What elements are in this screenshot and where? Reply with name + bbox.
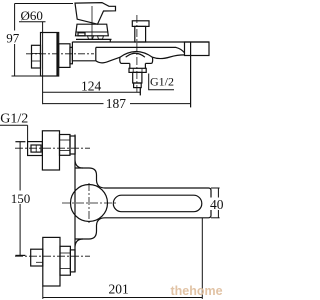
outlet nipple end cap [134,83,142,88]
svg-text:G1/2: G1/2 [150,75,174,89]
hub centerline vertical [88,183,90,223]
escutcheon bottom conn [43,237,60,286]
label G1/2 top leader [149,74,174,90]
wire 97 top extension line [15,3,73,5]
spout pipe top [72,41,209,43]
wire phi60 leader / dim extension vertical [42,22,44,104]
wire 201 right extension [201,218,203,299]
centerline outlet axis [136,15,138,92]
bonnet mid line [75,31,108,33]
connector nut A [59,44,70,68]
boss neck left [129,63,131,68]
svg-text:Ø60: Ø60 [21,8,43,23]
centerline top connection [15,147,90,149]
hub centerline horizontal [62,202,118,204]
pipe stub top conn [28,142,43,156]
escutcheon top conn [42,131,59,170]
bonnet base line [76,38,112,40]
bonnet trapezoid [76,24,109,36]
svg-text:187: 187 [106,96,127,111]
dimension 150 line [19,142,21,256]
connector step B [70,47,72,64]
bonnet detail rect [78,33,85,36]
spout inner stadium [113,195,202,212]
body fillet top [75,161,83,169]
outlet nipple G1/2 [133,72,142,83]
tick 124 right end [139,87,141,95]
boss inner crease arc [126,53,145,57]
dimension 97 line [14,4,16,77]
spout outer underside curve [152,55,184,59]
label phi60 leader underline [19,21,46,23]
nut bottom conn [60,246,70,275]
label 97 [5,31,23,45]
centerline top view axis [26,53,94,55]
svg-text:150: 150 [11,191,31,206]
label G1/2 bottom leader underline [0,124,28,126]
body fillet bottom [75,239,83,247]
dimension 40 line [217,188,219,218]
wire 97 bottom extension [12,75,41,77]
svg-text:thehome: thehome [171,284,223,298]
body block [71,42,73,61]
label 187 [104,97,131,110]
svg-text:97: 97 [6,30,19,45]
svg-text:201: 201 [109,281,129,296]
boss right skirt [151,57,154,63]
handle hub circle [71,185,108,222]
handle centerline [91,6,93,39]
nut top conn [60,135,71,156]
wire 201 left extension [42,286,44,299]
boss base left [121,62,130,64]
flange thick rim [56,33,58,77]
spout tip divider and 187 extension [190,42,192,107]
wire 40 extension top [211,187,220,189]
body-to-boss underside wave [96,57,120,63]
flange disc (side) [41,33,59,77]
svg-text:124: 124 [81,78,102,93]
centerline bottom connection [15,255,90,257]
svg-text:40: 40 [210,197,224,212]
pipe stub flat bottom conn [36,261,43,263]
bonnet foot right [98,36,104,39]
spout pipe bottom [96,47,185,52]
boss neck right [144,63,146,68]
boss base right [145,62,151,64]
pipe stub bottom conn [31,249,43,266]
tick 150 bottom [15,254,25,256]
boss outer arc [120,52,152,58]
spout tip block [185,42,210,56]
label 150 [10,191,33,205]
body and spout pill outline [75,168,211,239]
bonnet foot left [88,36,94,39]
diverter knob stem [135,26,146,42]
connector bottom conn [70,250,75,272]
adapter top conn [31,145,41,152]
connector top conn [70,136,75,154]
wire 40 extension bottom [211,217,220,219]
label G1/2 bottom leader vertical [27,125,29,141]
body front face line [74,135,76,273]
wall stub G1/2 [32,45,41,68]
svg-text:G1/2: G1/2 [0,111,28,126]
dimension 124 line [43,91,141,93]
boss left skirt [120,57,121,63]
dimension 201 line [43,297,203,299]
label 40 [210,198,226,211]
diverter knob cap [132,21,149,27]
dimension 187 line [43,103,191,105]
tick 150 top [15,141,25,143]
collar nut [129,68,146,72]
handle lever [75,3,116,25]
